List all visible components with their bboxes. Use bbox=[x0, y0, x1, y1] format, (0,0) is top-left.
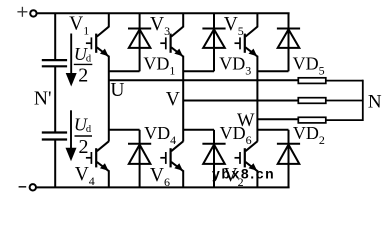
terminal - (negative DC input) bbox=[19, 184, 36, 190]
resistor load phase W bbox=[298, 117, 326, 123]
wire jog VD3 anode to leg bbox=[183, 70, 214, 72]
transistor V2 (IGBT) bbox=[235, 141, 258, 171]
wire leg 3 collector from top bus bbox=[256, 13, 258, 27]
resistor load phase U bbox=[298, 78, 326, 84]
wire diode column VD6 bbox=[213, 130, 215, 188]
resistor load phase V bbox=[298, 98, 326, 104]
wire diode column VD3 bbox=[213, 13, 215, 71]
wire neutral bus N bbox=[362, 80, 364, 121]
wire leg 1 midpoint vertical bbox=[108, 56, 110, 142]
svg-text:ybx8.cn: ybx8.cn bbox=[212, 166, 275, 182]
wire jog VD6 cathode to leg bbox=[183, 129, 214, 131]
diode VD2 (freewheeling) bbox=[277, 144, 300, 164]
wire phase line U to load bbox=[109, 79, 299, 81]
transistor V4 (IGBT) bbox=[86, 141, 109, 171]
wire load W to N bbox=[326, 119, 363, 121]
wire capacitor branch middle (node N') bbox=[54, 66, 56, 132]
wire jog VD2 cathode to leg bbox=[257, 129, 288, 131]
wire phase line W to load bbox=[257, 118, 299, 120]
label Ud/2 upper bbox=[74, 44, 93, 86]
wire leg 2 midpoint vertical bbox=[182, 56, 184, 142]
transistor V3 (IGBT) bbox=[160, 27, 183, 57]
wire diode column VD4 bbox=[139, 130, 141, 188]
diode VD3 (freewheeling) bbox=[202, 29, 225, 48]
wire top DC bus bbox=[37, 12, 290, 14]
voltage arrow Ud/2 upper bbox=[66, 34, 77, 87]
svg-text:N: N bbox=[368, 92, 382, 113]
wire jog VD5 anode to leg bbox=[257, 70, 288, 72]
wire leg 1 collector from top bus bbox=[108, 13, 110, 27]
wire leg 2 collector from top bus bbox=[182, 13, 184, 27]
wire jog VD1 anode to leg bbox=[109, 70, 140, 72]
transistor V6 (IGBT) bbox=[160, 141, 183, 171]
svg-text:2: 2 bbox=[78, 65, 88, 87]
wire diode column VD1 bbox=[139, 13, 141, 71]
label Ud/2 lower bbox=[74, 114, 92, 158]
wire capacitor branch top bbox=[54, 13, 56, 60]
wire leg 3 emitter to bottom bus bbox=[256, 170, 258, 187]
svg-text:2: 2 bbox=[79, 136, 89, 158]
svg-text:U: U bbox=[110, 80, 124, 101]
voltage arrow Ud/2 lower bbox=[66, 110, 77, 161]
diode VD5 (freewheeling) bbox=[277, 29, 300, 48]
wire load V to N bbox=[326, 100, 363, 102]
svg-text:V: V bbox=[166, 89, 180, 110]
diode VD6 (freewheeling) bbox=[202, 144, 225, 164]
wire leg 3 midpoint vertical bbox=[256, 56, 258, 142]
capacitor Cd2 (lower, Ud/2) bbox=[42, 133, 67, 140]
wire capacitor branch bottom bbox=[54, 140, 56, 188]
wire bottom DC bus bbox=[36, 186, 289, 188]
wire leg 2 emitter to bottom bus bbox=[182, 170, 184, 187]
capacitor Cd1 (upper, Ud/2) bbox=[42, 60, 67, 66]
transistor V5 (IGBT) bbox=[235, 27, 258, 57]
diode VD1 (freewheeling) bbox=[128, 29, 151, 48]
wire phase line V to load bbox=[183, 100, 299, 102]
wire diode column VD2 bbox=[288, 130, 290, 188]
transistor V1 (IGBT) bbox=[86, 27, 109, 57]
svg-text:N': N' bbox=[34, 88, 52, 109]
wire load U to N bbox=[326, 80, 363, 82]
terminal + (positive DC input) bbox=[17, 7, 36, 17]
wire leg 1 emitter to bottom bus bbox=[108, 170, 110, 187]
diode VD4 (freewheeling) bbox=[128, 144, 151, 164]
wire jog VD4 cathode to leg bbox=[109, 129, 140, 131]
wire diode column VD5 bbox=[288, 13, 290, 71]
svg-text:W: W bbox=[237, 111, 255, 131]
